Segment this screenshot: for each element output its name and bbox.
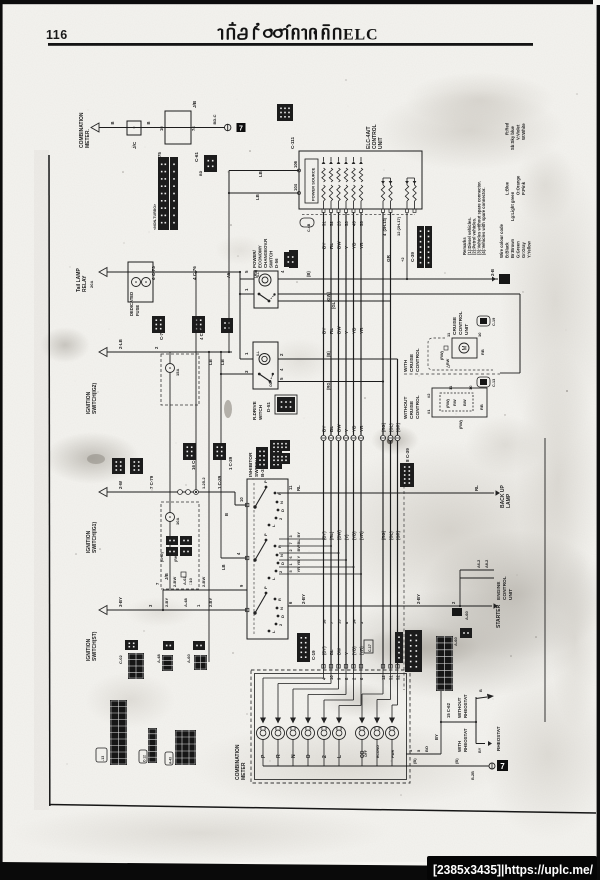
inline connector circles on IG1 wire bbox=[178, 490, 183, 495]
svg-text:(LHD): (LHD) bbox=[160, 551, 164, 562]
svg-text:2: 2 bbox=[289, 549, 293, 551]
scan stains bbox=[375, 90, 565, 170]
svg-text:RW: RW bbox=[452, 399, 457, 406]
inhibitor connector blocks bbox=[270, 440, 290, 451]
svg-text:B: B bbox=[146, 121, 151, 124]
svg-text:+2: +2 bbox=[400, 257, 405, 262]
svg-text:R: R bbox=[277, 598, 282, 601]
svg-text:GR: GR bbox=[386, 254, 391, 262]
svg-text:Y: Y bbox=[344, 652, 349, 655]
svg-text:BL: BL bbox=[296, 539, 301, 545]
svg-text:J/C: J/C bbox=[132, 141, 137, 149]
connector block near C-111 bbox=[277, 104, 293, 121]
svg-text:D: D bbox=[280, 615, 285, 618]
svg-text:[2385x3435]|https://uplc.me/: [2385x3435]|https://uplc.me/ bbox=[433, 862, 593, 877]
svg-text:P: P bbox=[263, 480, 268, 483]
meter exit wire y754 bbox=[406, 753, 441, 755]
svg-text:Y: Y bbox=[344, 331, 349, 334]
svg-text:SWITCH: SWITCH bbox=[269, 251, 274, 268]
svg-text:D: D bbox=[280, 509, 285, 512]
svg-text:C-111: C-111 bbox=[290, 137, 295, 149]
svg-text:CHANGEOV.R: CHANGEOV.R bbox=[263, 238, 268, 268]
svg-text:CONTROL: CONTROL bbox=[415, 395, 421, 419]
svg-text:1 C-39: 1 C-39 bbox=[217, 475, 222, 489]
svg-text:3-BY: 3-BY bbox=[118, 597, 123, 607]
C-18 connector blocks (meter right) bbox=[395, 632, 403, 663]
riser x196 joins IG1 wire bbox=[195, 491, 197, 493]
svg-text:SWITCH(IG1): SWITCH(IG1) bbox=[92, 522, 98, 553]
svg-text:C-12: C-12 bbox=[143, 755, 147, 762]
svg-text:J/B: J/B bbox=[192, 100, 197, 108]
svg-text:CONTROL: CONTROL bbox=[415, 348, 421, 372]
svg-text:A-60: A-60 bbox=[186, 654, 191, 663]
svg-text:UNIT: UNIT bbox=[464, 324, 470, 335]
wire D-56 GW to cruise bbox=[278, 293, 520, 295]
bus A vertical wires bbox=[323, 213, 325, 669]
face labels bbox=[96, 748, 107, 762]
diagram frame bottom line bbox=[49, 805, 596, 814]
svg-text:(GL): (GL) bbox=[331, 300, 336, 309]
svg-text:15 C-62: 15 C-62 bbox=[446, 702, 451, 718]
svg-text:B-2B: B-2B bbox=[471, 771, 475, 780]
svg-text:YR: YR bbox=[296, 567, 301, 573]
C-17 boxed label bbox=[364, 640, 373, 653]
svg-text:BW: BW bbox=[337, 648, 342, 655]
svg-text:B-34: B-34 bbox=[260, 466, 266, 477]
svg-text:C-17: C-17 bbox=[368, 644, 372, 652]
svg-text:B: B bbox=[224, 513, 229, 516]
vertical riser x196 bbox=[195, 272, 197, 492]
svg-text:#1: #1 bbox=[426, 409, 431, 414]
svg-text:L: L bbox=[337, 755, 343, 758]
svg-text:(RG): (RG) bbox=[381, 530, 386, 540]
title: Thai text approximation bbox=[218, 23, 340, 39]
svg-text:D-56: D-56 bbox=[274, 258, 279, 268]
svg-text:C-4B: C-4B bbox=[307, 223, 311, 232]
svg-text:Sb:Sky blue: Sb:Sky blue bbox=[510, 125, 515, 150]
svg-text:WITCH: WITCH bbox=[258, 404, 263, 420]
right black edge strip bbox=[597, 5, 600, 880]
svg-text:2-BY: 2-BY bbox=[164, 598, 169, 607]
connector face C-19 (bottom left) bbox=[110, 700, 127, 765]
arrow to combination meter bbox=[91, 123, 99, 132]
svg-text:POWER SOURCE: POWER SOURCE bbox=[311, 167, 316, 201]
svg-text:LAMP: LAMP bbox=[506, 493, 512, 508]
svg-text:10: 10 bbox=[239, 497, 244, 502]
svg-text:Br:Brown: Br:Brown bbox=[510, 238, 515, 258]
svg-text:6 C-73: 6 C-73 bbox=[151, 266, 156, 280]
wire D-56 to 2-B connector bbox=[278, 278, 498, 280]
ELC-4A/T control unit box bbox=[299, 151, 422, 209]
svg-text:B: B bbox=[479, 689, 483, 692]
svg-text:BY: BY bbox=[434, 734, 439, 740]
svg-text:RELAY: RELAY bbox=[82, 275, 88, 292]
svg-text:DEDICATED: DEDICATED bbox=[129, 292, 134, 316]
svg-text:YR: YR bbox=[359, 242, 364, 249]
svg-text:(RL): (RL) bbox=[329, 531, 334, 540]
svg-text:(RW): (RW) bbox=[446, 398, 450, 408]
svg-text:BY: BY bbox=[322, 426, 327, 432]
ground box 7 bbox=[237, 123, 246, 132]
svg-text:7: 7 bbox=[500, 762, 505, 771]
svg-text:(BY): (BY) bbox=[322, 646, 327, 655]
engine control unit stubs bbox=[459, 578, 461, 606]
misc right-side vertical bbox=[544, 438, 546, 722]
unit internal resistors group3 bbox=[406, 178, 408, 185]
svg-text:LB: LB bbox=[258, 171, 263, 177]
svg-text:BW: BW bbox=[337, 241, 342, 249]
svg-text:STARTER: STARTER bbox=[496, 604, 502, 628]
vertical riser x221 bbox=[220, 352, 222, 558]
svg-text:4 (2H-13): 4 (2H-13) bbox=[382, 217, 387, 236]
svg-text:2-BW: 2-BW bbox=[172, 577, 177, 587]
meter internal bottom bus bbox=[263, 765, 406, 767]
meter pin squares and numbers bbox=[322, 665, 325, 669]
svg-text:CRUISE: CRUISE bbox=[409, 353, 415, 372]
svg-text:RB: RB bbox=[479, 404, 484, 410]
svg-text:BY: BY bbox=[322, 243, 327, 249]
svg-text:RL: RL bbox=[296, 485, 301, 491]
svg-text:RB: RB bbox=[480, 349, 485, 355]
vertical riser x209 bbox=[208, 352, 210, 662]
svg-text:A-43: A-43 bbox=[169, 757, 173, 764]
junction block J/B (top) bbox=[165, 111, 191, 144]
svg-text:R: R bbox=[277, 545, 282, 548]
wire D-51 B out bbox=[278, 358, 398, 360]
header rule bbox=[48, 43, 533, 46]
svg-text:D: D bbox=[306, 754, 312, 758]
svg-text:ELC: ELC bbox=[343, 27, 378, 44]
svg-text:△RW: △RW bbox=[446, 358, 450, 369]
A-60 small connector bbox=[460, 628, 472, 638]
svg-text:74: 74 bbox=[191, 126, 196, 131]
svg-text:RHEOSTAT: RHEOSTAT bbox=[496, 726, 501, 751]
wire: block to rheostat split bbox=[440, 691, 442, 722]
power source box bbox=[305, 159, 318, 203]
svg-text:(YB): (YB) bbox=[352, 531, 357, 540]
svg-text:(GL): (GL) bbox=[389, 531, 394, 540]
svg-text:1 C-39: 1 C-39 bbox=[228, 456, 233, 470]
rotary contact fan 3 bbox=[253, 611, 256, 614]
J/B dashed box (lower fuse) bbox=[161, 502, 199, 589]
svg-text:A-48: A-48 bbox=[156, 654, 161, 663]
svg-text:C-18: C-18 bbox=[399, 652, 404, 662]
svg-text:7: 7 bbox=[239, 125, 243, 132]
unit pin squares bbox=[322, 209, 325, 212]
svg-text:(GR): (GR) bbox=[396, 530, 401, 540]
svg-text:52: 52 bbox=[396, 675, 401, 680]
power economy switch D-56 box bbox=[254, 271, 278, 308]
svg-text:10A: 10A bbox=[175, 518, 180, 525]
D-56 contacts bbox=[258, 293, 261, 296]
svg-text:R: R bbox=[276, 754, 282, 758]
svg-text:CONTROL: CONTROL bbox=[458, 311, 464, 335]
svg-text:4 C-76: 4 C-76 bbox=[199, 326, 204, 340]
C-19 connector (cruise) bbox=[477, 316, 490, 326]
svg-text:INHIBITOR: INHIBITOR bbox=[248, 452, 254, 477]
svg-text:WITH: WITH bbox=[403, 359, 409, 372]
svg-text:ENGINE: ENGINE bbox=[496, 581, 502, 600]
svg-text:YB: YB bbox=[352, 425, 357, 432]
svg-text:2-BW: 2-BW bbox=[201, 577, 206, 587]
svg-text:SWITCH(ST): SWITCH(ST) bbox=[92, 631, 98, 661]
C-13 connector bbox=[477, 377, 490, 387]
svg-text:ILL: ILL bbox=[256, 272, 260, 277]
staircase wiring pins to lamps bbox=[323, 668, 325, 678]
svg-text:A5: A5 bbox=[226, 272, 231, 278]
connector pin-face blocks (ST row) bbox=[128, 653, 144, 679]
without rheostat arrow bbox=[476, 697, 487, 699]
svg-text:SWITCH: SWITCH bbox=[254, 458, 260, 477]
with-cruise dashed outline bbox=[428, 338, 493, 370]
vertical: fuse to IG1 row bbox=[169, 405, 171, 512]
svg-text:12: 12 bbox=[381, 675, 386, 680]
inhibitor left pins bbox=[246, 503, 249, 506]
watermark bar bbox=[427, 856, 597, 880]
connector dashed row under unit bbox=[302, 214, 415, 216]
svg-text:16: 16 bbox=[322, 619, 327, 624]
svg-text:C-02: C-02 bbox=[118, 655, 123, 664]
svg-text:10: 10 bbox=[329, 675, 334, 680]
svg-text:(B): (B) bbox=[326, 351, 331, 357]
svg-text:15A: 15A bbox=[175, 369, 180, 376]
rheostat split vertical bbox=[475, 697, 477, 744]
D-51 contacts bbox=[258, 373, 261, 376]
connector C-61 oval bbox=[300, 218, 314, 227]
svg-text:(BW): (BW) bbox=[337, 530, 342, 540]
svg-text:J/B: J/B bbox=[164, 573, 169, 580]
connector blocks row y458 bbox=[112, 458, 125, 474]
C-73/C-76 connector labels (upper) bbox=[152, 316, 165, 333]
svg-text:A8-2: A8-2 bbox=[485, 560, 489, 568]
wire OD switch feeds from left bbox=[239, 294, 241, 359]
with cruise box bbox=[452, 338, 477, 358]
connector block (non-turbo) bbox=[158, 157, 169, 230]
svg-text:(4):Vehicles with spare connec: (4):Vehicles with spare connector. bbox=[481, 188, 486, 256]
svg-text:7 C-79: 7 C-79 bbox=[149, 475, 154, 489]
svg-text:A6-2: A6-2 bbox=[477, 560, 481, 568]
lamp bottom stubs bbox=[262, 740, 264, 767]
LB feed wires into unit bbox=[229, 170, 299, 172]
D-51 ILL lamp bbox=[259, 354, 270, 365]
lamp bulbs bbox=[257, 727, 270, 740]
svg-text:11: 11 bbox=[288, 485, 293, 490]
svg-text:3: 3 bbox=[289, 535, 293, 537]
rotary contact fan 1 bbox=[253, 505, 256, 508]
svg-text:(YR): (YR) bbox=[359, 646, 364, 655]
dedicated fuse box bbox=[128, 262, 153, 302]
svg-text:CRUISE: CRUISE bbox=[452, 316, 458, 335]
svg-text:YR: YR bbox=[359, 425, 364, 432]
svg-text:C-19: C-19 bbox=[311, 650, 316, 660]
svg-text:CONTROL: CONTROL bbox=[502, 576, 508, 600]
svg-text:YR: YR bbox=[359, 327, 364, 334]
svg-text:2-BY: 2-BY bbox=[416, 594, 421, 604]
svg-text:C-73: C-73 bbox=[159, 330, 164, 340]
ST second wire (2-BW) bbox=[163, 589, 247, 591]
svg-text:BY: BY bbox=[478, 747, 482, 753]
separator dashes between with/without bbox=[404, 373, 500, 375]
svg-text:10: 10 bbox=[468, 385, 473, 390]
svg-text:Y: Y bbox=[344, 246, 349, 249]
svg-text:(RG): (RG) bbox=[326, 380, 331, 390]
svg-text:#2: #2 bbox=[426, 393, 431, 398]
svg-text:N: N bbox=[291, 754, 297, 758]
svg-text:CRUISE: CRUISE bbox=[409, 400, 415, 419]
svg-text:OFF: OFF bbox=[364, 750, 368, 757]
svg-text:16: 16 bbox=[159, 126, 164, 131]
svg-text:Lg:Light green: Lg:Light green bbox=[510, 191, 515, 221]
svg-text:RHEOSTAT: RHEOSTAT bbox=[463, 728, 468, 752]
svg-text:BY: BY bbox=[322, 328, 327, 334]
fuse 15A bbox=[169, 352, 171, 363]
rotary contact fan 2 bbox=[253, 558, 256, 561]
svg-text:N: N bbox=[279, 607, 284, 610]
svg-text:15: 15 bbox=[337, 619, 342, 624]
svg-text:L:Blue: L:Blue bbox=[505, 181, 510, 195]
wire IG1 feed bbox=[99, 488, 107, 497]
svg-text:ECONOMY: ECONOMY bbox=[258, 245, 263, 268]
svg-text:<NON-TURBO>: <NON-TURBO> bbox=[153, 204, 157, 230]
svg-text:RHEOSTAT: RHEOSTAT bbox=[463, 694, 468, 718]
svg-text:1-25-2: 1-25-2 bbox=[201, 477, 206, 489]
vertical LB riser to unit bbox=[228, 193, 230, 352]
D-56 connector block bbox=[284, 252, 297, 267]
svg-text:METER.: METER. bbox=[85, 129, 91, 149]
wire from unit pin to 2-B bbox=[406, 213, 408, 279]
svg-text:-13: -13 bbox=[101, 756, 105, 761]
bus B vertical wires (RG GL GR) bbox=[382, 213, 384, 669]
svg-text:(RG): (RG) bbox=[381, 422, 386, 432]
svg-text:2: 2 bbox=[322, 755, 328, 758]
svg-text:BL: BL bbox=[329, 649, 334, 655]
left black edge strip bbox=[0, 0, 3, 880]
svg-text:BW: BW bbox=[337, 326, 342, 334]
wire: taillamp feed bbox=[99, 268, 107, 277]
(LHD)/(RHD) option blocks bbox=[166, 536, 178, 545]
svg-text:O:Orange: O:Orange bbox=[516, 175, 521, 195]
svg-text:B: B bbox=[110, 121, 115, 124]
svg-text:Gr:Gray: Gr:Gray bbox=[521, 242, 526, 258]
svg-text:BD: BD bbox=[199, 170, 203, 176]
svg-text:YB: YB bbox=[352, 242, 357, 249]
svg-text:A-48: A-48 bbox=[183, 598, 188, 607]
svg-text:C-61: C-61 bbox=[194, 152, 199, 162]
connector labels below ST bbox=[125, 640, 138, 650]
svg-text:Y: Y bbox=[296, 556, 301, 559]
specks bbox=[227, 171, 228, 172]
svg-text:BW: BW bbox=[337, 424, 342, 432]
svg-text:WITHOUT: WITHOUT bbox=[403, 397, 409, 419]
svg-text:Y:Yellow: Y:Yellow bbox=[527, 240, 532, 258]
svg-text:YB: YB bbox=[352, 327, 357, 334]
svg-text:OD: OD bbox=[269, 381, 273, 387]
svg-text:R:Red: R:Red bbox=[505, 122, 510, 135]
ground connector circle + box 7 bbox=[489, 763, 495, 769]
combination meter inner box bbox=[255, 674, 407, 780]
connector J/C bbox=[127, 121, 141, 135]
wire GL down to bus bbox=[278, 300, 391, 302]
svg-text:BL: BL bbox=[329, 426, 334, 432]
svg-text:51: 51 bbox=[389, 675, 394, 680]
svg-text:WITH: WITH bbox=[457, 741, 462, 752]
svg-text:20A: 20A bbox=[89, 281, 94, 288]
svg-text:116: 116 bbox=[46, 28, 68, 42]
svg-text:10: 10 bbox=[477, 332, 482, 337]
svg-text:8 C-39: 8 C-39 bbox=[405, 448, 410, 462]
svg-text:B:Black: B:Black bbox=[505, 242, 510, 258]
svg-text:(YR): (YR) bbox=[359, 531, 364, 540]
unit internal resistors row1 bbox=[322, 161, 326, 164]
svg-text:G:Green: G:Green bbox=[516, 241, 521, 258]
svg-text:M: M bbox=[463, 346, 469, 351]
svg-text:C-19: C-19 bbox=[492, 318, 496, 326]
svg-text:P: P bbox=[263, 533, 268, 536]
svg-text:METER: METER bbox=[241, 762, 247, 780]
margin shade left of frame bbox=[34, 150, 49, 810]
svg-text:RL: RL bbox=[329, 243, 334, 249]
svg-text:UNIT: UNIT bbox=[378, 137, 384, 149]
svg-text:(GR): (GR) bbox=[396, 422, 401, 432]
connector blocks near inhibitor top bbox=[256, 447, 268, 469]
dashed spare-connector line bbox=[403, 480, 405, 690]
bus inline connector circles bbox=[321, 435, 326, 440]
svg-text:R.DRIVE: R.DRIVE bbox=[252, 401, 257, 420]
svg-text:106: 106 bbox=[293, 160, 298, 168]
svg-text:Wire colour code: Wire colour code bbox=[499, 223, 504, 258]
svg-text:(RW): (RW) bbox=[459, 419, 463, 429]
svg-text:(B): (B) bbox=[454, 758, 459, 764]
svg-text:104: 104 bbox=[293, 183, 298, 191]
svg-text:P:Pink: P:Pink bbox=[521, 181, 526, 195]
svg-text:(GL): (GL) bbox=[389, 423, 394, 432]
svg-text:7: 7 bbox=[289, 542, 293, 544]
svg-text:UNIT: UNIT bbox=[508, 589, 514, 600]
svg-text:(B): (B) bbox=[412, 758, 417, 764]
svg-text:BO: BO bbox=[424, 746, 429, 752]
C-19 connector block (meter left) bbox=[297, 633, 310, 662]
connector block small 2x2 bbox=[204, 155, 217, 172]
svg-text:2-W: 2-W bbox=[118, 480, 123, 489]
svg-text:SWITCH(IG2): SWITCH(IG2) bbox=[92, 383, 98, 414]
svg-text:D-51: D-51 bbox=[266, 402, 271, 412]
svg-text:ILL: ILL bbox=[256, 351, 260, 356]
fuse 10A bbox=[166, 513, 175, 522]
svg-text:2-BY: 2-BY bbox=[208, 598, 213, 607]
svg-text:C-39: C-39 bbox=[410, 252, 415, 262]
svg-text:12 (2H-17): 12 (2H-17) bbox=[396, 216, 401, 236]
svg-text:2-BY: 2-BY bbox=[301, 594, 306, 604]
combination meter dashed box bbox=[251, 670, 410, 783]
wire D-51 RG out bbox=[278, 381, 383, 383]
svg-text:Y: Y bbox=[344, 429, 349, 432]
svg-text:FUSE: FUSE bbox=[135, 305, 140, 316]
lamp diode arrows bbox=[260, 718, 266, 724]
inhibitor right stub wires to bus bbox=[279, 538, 324, 540]
svg-text:D: D bbox=[280, 562, 285, 565]
svg-text:C-13: C-13 bbox=[492, 379, 496, 387]
svg-text:WITHOUT: WITHOUT bbox=[457, 697, 462, 718]
svg-text:LB: LB bbox=[221, 564, 226, 570]
C-82 C-79 black labels bbox=[183, 443, 196, 460]
svg-text:(Y): (Y) bbox=[344, 534, 349, 540]
wire: meter feed bbox=[99, 127, 225, 129]
tall connector block right bbox=[436, 636, 453, 691]
small block left of bus bbox=[289, 250, 298, 268]
svg-text:P: P bbox=[263, 586, 268, 589]
svg-text:6: 6 bbox=[289, 556, 293, 558]
connector face A-43 bbox=[175, 730, 196, 765]
